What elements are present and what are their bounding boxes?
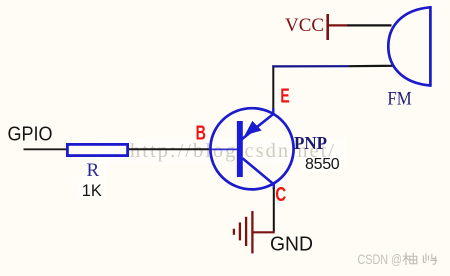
svg-text:B: B [196,123,206,145]
svg-text:VCC: VCC [285,15,324,36]
svg-text:GND: GND [270,234,313,256]
svg-text:CSDN @: CSDN @ [358,251,403,267]
svg-text:1K: 1K [82,181,103,200]
svg-text:FM: FM [387,88,411,109]
svg-text:R: R [87,160,100,181]
svg-text:GPIO: GPIO [8,123,53,145]
svg-text:C: C [275,184,286,206]
svg-text:PNP: PNP [294,133,327,153]
svg-text:8550: 8550 [305,156,340,173]
svg-text:E: E [280,86,289,108]
